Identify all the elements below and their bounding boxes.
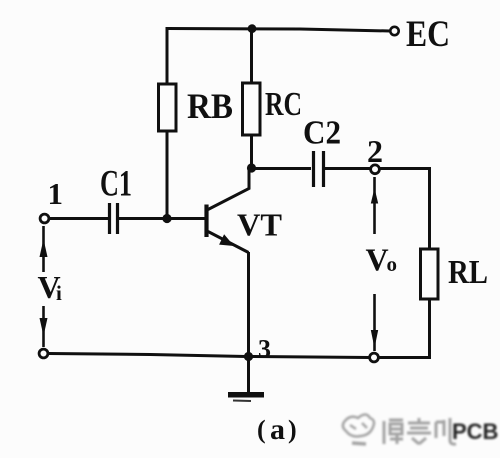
wire C2 to node 2 <box>325 167 370 170</box>
wire RB top <box>166 27 169 84</box>
wire top rail <box>168 29 390 32</box>
capacitor C2 <box>312 151 315 187</box>
arrow Vo lower <box>373 294 376 351</box>
svg-text:2: 2 <box>367 133 383 169</box>
wire collector to C2 <box>252 167 312 170</box>
wire emitter down <box>247 252 250 392</box>
arrow Vo upper <box>373 177 376 234</box>
svg-text:VT: VT <box>237 207 282 243</box>
wire RC bottom <box>250 135 253 168</box>
wire input to C1 <box>50 217 109 220</box>
watermark <box>343 415 499 445</box>
svg-text:3: 3 <box>258 335 271 364</box>
svg-text:i: i <box>56 281 62 305</box>
ground <box>228 392 264 398</box>
junction collector node <box>247 163 256 172</box>
svg-text:C1: C1 <box>100 164 132 205</box>
svg-text:o: o <box>387 252 398 276</box>
wire RC top <box>250 28 253 83</box>
wire RB bottom <box>166 131 169 219</box>
terminal output bottom <box>370 353 379 362</box>
svg-text:V: V <box>366 242 389 278</box>
svg-text:C2: C2 <box>303 115 341 152</box>
resistor RB <box>159 84 177 131</box>
terminal bottom left <box>39 349 48 358</box>
resistor RC <box>243 83 261 135</box>
arrow Vi lower <box>42 306 45 347</box>
junction top rail <box>248 24 257 33</box>
terminal input 1 <box>40 214 49 223</box>
wire bottom rail middle <box>251 357 369 358</box>
svg-text:PCB: PCB <box>452 419 498 444</box>
transistor VT collector line <box>208 168 249 210</box>
svg-text:): ) <box>288 415 297 444</box>
svg-text:RC: RC <box>265 86 302 123</box>
wire C1 to base <box>119 217 205 220</box>
transistor VT emitter arrow <box>219 234 234 246</box>
wire bottom rail right <box>379 356 432 359</box>
svg-text:a: a <box>270 413 285 446</box>
watermark char 1 <box>384 420 403 444</box>
svg-text:RB: RB <box>187 86 233 126</box>
watermark char 2 <box>407 418 431 444</box>
junction base node <box>162 214 171 223</box>
svg-text:1: 1 <box>48 176 64 211</box>
junction node 3 <box>244 352 253 361</box>
transistor VT emitter line <box>208 232 249 253</box>
arrow Vi upper <box>42 226 45 272</box>
terminal node 2 <box>371 165 380 174</box>
transistor VT base bar <box>204 205 208 238</box>
svg-text:EC: EC <box>406 14 450 55</box>
svg-text:RL: RL <box>448 254 488 291</box>
wire node 2 to RL <box>380 169 430 250</box>
capacitor C1 <box>108 203 111 234</box>
watermark char 3 <box>436 418 456 444</box>
terminal EC <box>390 27 398 35</box>
wire RL bottom <box>428 299 431 358</box>
watermark icon <box>343 415 374 437</box>
svg-text:(: ( <box>257 415 266 444</box>
wire bottom rail left <box>49 354 247 357</box>
resistor RL <box>421 249 439 299</box>
